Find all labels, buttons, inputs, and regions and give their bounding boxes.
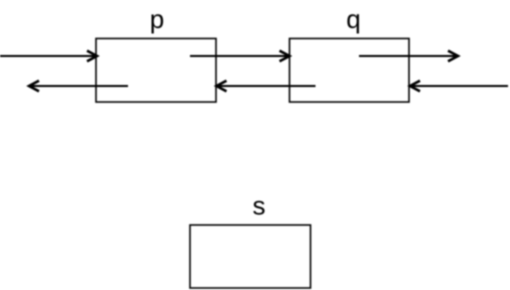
svg-text:q: q [346, 4, 360, 34]
svg-text:p: p [150, 4, 164, 34]
svg-text:s: s [253, 191, 266, 221]
